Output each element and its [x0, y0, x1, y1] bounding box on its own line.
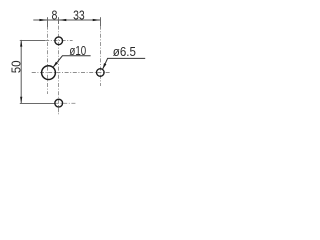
extension stub at x=100.4	[100, 17, 102, 26]
centerline horizontal through holes D1 D4	[32, 72, 110, 74]
centerline dash below hole D3	[58, 109, 60, 112]
arrow up at y=39.9	[20, 40, 22, 47]
extension stub at x=58.7	[58, 17, 60, 24]
svg-text:ø10: ø10	[69, 44, 86, 58]
hole D3 bottom circle	[55, 99, 63, 107]
svg-text:50: 50	[9, 61, 23, 74]
centerline vertical through hole D4	[100, 17, 102, 86]
leader line for label ø10	[53, 56, 91, 67]
centerline vertical through hole D1	[47, 17, 49, 94]
extension line bottom at y=103.3	[20, 103, 55, 105]
centerline dash right of hole D4	[106, 72, 110, 74]
dimension line top	[33, 19, 100, 21]
leader line for label ø6.5	[103, 58, 146, 69]
extension line top at y=40.2	[20, 40, 45, 42]
dimension line left vertical	[20, 40, 22, 104]
hole D2 top circle	[55, 37, 63, 45]
leader arrowhead ø6.5	[103, 63, 107, 69]
centerline horizontal through hole D2	[45, 40, 72, 42]
arrow right at x=47.5	[39, 19, 47, 21]
centerline vertical through holes D2 D3	[58, 17, 60, 114]
svg-text:ø6.5: ø6.5	[113, 45, 136, 59]
arrow right at x=100.5	[93, 19, 101, 21]
svg-text:8: 8	[52, 8, 58, 22]
hole D4 right circle	[97, 69, 105, 77]
svg-text:33: 33	[73, 8, 85, 22]
background	[0, 0, 150, 120]
centerline dash left end of horizontal axis	[32, 72, 35, 74]
extension stub at x=47.6	[47, 17, 49, 27]
hole D1 big circle	[42, 66, 56, 80]
arrow left at x=58.9	[59, 19, 67, 21]
centerline horizontal through hole D3	[55, 102, 76, 104]
leader arrowhead ø10	[53, 62, 58, 67]
arrow down at y=103.4	[20, 97, 22, 104]
